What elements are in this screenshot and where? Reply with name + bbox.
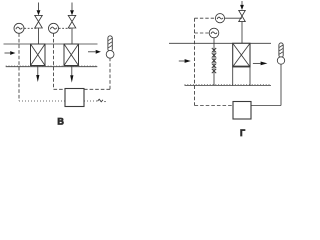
supply pipe valve 2	[68, 3, 76, 45]
air inlet arrow	[179, 59, 191, 63]
impulse line down to controller	[194, 18, 196, 105]
supply pipe valve 1	[35, 3, 43, 45]
heater E1 (air heater box with X)	[31, 44, 46, 66]
duct top wall	[4, 43, 98, 45]
impulse dotted line to controller	[19, 100, 65, 102]
return pipe arrow under heater E1	[36, 66, 39, 83]
spray pipe with nozzles	[212, 43, 216, 85]
svg-text:Г: Г	[240, 128, 245, 138]
duct bottom wall	[185, 85, 272, 87]
thermometer T2 stem	[279, 43, 283, 58]
heater E2 (air heater box with X)	[64, 44, 79, 66]
link circle A to valve	[225, 17, 242, 19]
line thermometer to controller	[251, 64, 281, 105]
line controller to thermometer	[84, 58, 110, 89]
sensor circle B	[209, 28, 219, 38]
supply valve with flow arrow	[239, 1, 246, 43]
duct bottom wall	[6, 66, 98, 68]
impulse dashed lines to circles	[195, 17, 216, 19]
impulse line from sensor2 down	[53, 33, 55, 89]
thermometer T1 stem	[108, 36, 112, 52]
svg-text:В: В	[57, 116, 64, 126]
thermometer T1 bulb	[106, 50, 114, 58]
actuator circle A	[215, 14, 224, 23]
duct top wall	[169, 42, 271, 44]
air inlet arrow	[5, 51, 16, 55]
link circle1 to valve1	[24, 27, 38, 29]
impulse line from sensor1 down	[18, 33, 20, 101]
actuator sensor circle 2	[49, 23, 59, 33]
impulse line sensor2 to controller	[54, 88, 66, 90]
duct bottom wall dotted liner	[185, 83, 272, 85]
link circle2 to valve2	[59, 27, 72, 29]
return pipe arrow under heater E2	[70, 66, 73, 83]
air outlet arrow	[88, 50, 101, 54]
duct bottom wall dotted liner	[6, 65, 98, 67]
heat exchanger box with X	[233, 43, 250, 85]
circle B stem to spray pipe	[213, 38, 215, 44]
controller box	[233, 102, 251, 120]
air outlet arrow	[253, 62, 268, 66]
dotted output line with break squiggle	[84, 99, 106, 102]
controller box	[65, 89, 84, 107]
actuator sensor circle 1	[14, 23, 24, 33]
thermometer T2 bulb	[277, 57, 284, 64]
